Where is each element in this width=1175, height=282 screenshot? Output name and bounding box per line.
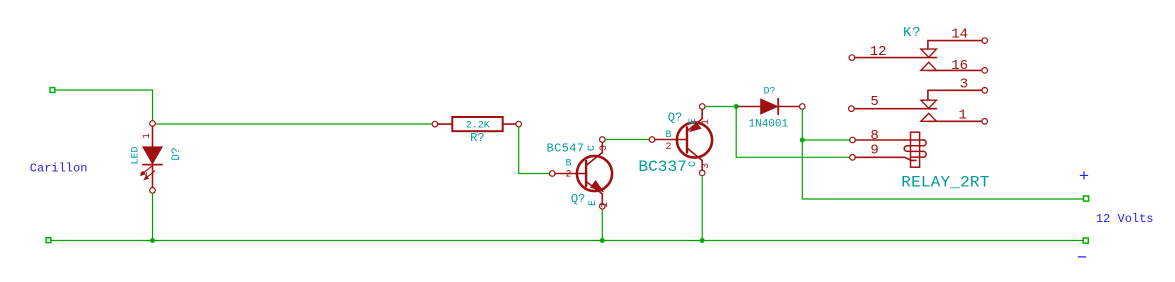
wire LED bottom to rail	[152, 193, 154, 240]
junction diode cathode / relay pin8	[800, 138, 805, 143]
wire diode cathode down and to +12V terminal	[802, 109, 1083, 199]
contact 2 moving triangle down	[921, 100, 937, 108]
wire resistor to BC547 base	[519, 127, 550, 174]
svg-text:2: 2	[140, 171, 151, 177]
svg-text:12 Volts: 12 Volts	[1096, 212, 1154, 226]
bottom rail wire	[51, 240, 1083, 242]
unconnected square end bottom-left	[46, 238, 51, 243]
svg-text:Q?: Q?	[668, 111, 682, 125]
svg-text:BC337: BC337	[638, 158, 687, 176]
contact 2 : pin 1	[928, 120, 982, 122]
wire BC337 emitter to diode node	[705, 106, 736, 108]
diode D? 1N4001	[739, 99, 805, 115]
svg-text:3: 3	[599, 145, 610, 151]
relay K? RELAY_2RT	[849, 38, 988, 167]
resistor R? 2.2K	[432, 117, 521, 131]
svg-text:K?: K?	[903, 25, 922, 41]
junction LED/rail	[150, 238, 155, 243]
svg-text:1N4001: 1N4001	[749, 118, 789, 130]
wire top-left stub	[55, 90, 153, 121]
LED emission arrows	[141, 166, 155, 179]
coil pin 9	[850, 155, 856, 161]
svg-text:14: 14	[951, 26, 968, 42]
junction BC337 collector/rail	[700, 238, 705, 243]
svg-text:2.2K: 2.2K	[466, 121, 490, 132]
svg-text:5: 5	[870, 94, 878, 110]
svg-text:C: C	[688, 161, 699, 167]
wire node down to relay pin9	[736, 107, 850, 158]
svg-text:16: 16	[951, 58, 968, 74]
wire to relay pin8	[802, 139, 849, 141]
svg-text:−: −	[1077, 250, 1087, 269]
svg-text:D?: D?	[764, 87, 776, 98]
LED D?	[141, 121, 162, 193]
svg-text:9: 9	[870, 143, 878, 159]
svg-text:Q?: Q?	[571, 192, 585, 206]
svg-text:2: 2	[565, 170, 571, 181]
junction BC547 emitter/rail	[600, 238, 605, 243]
svg-text:BC547: BC547	[547, 142, 585, 156]
svg-text:Carillon: Carillon	[30, 162, 88, 176]
svg-text:R?: R?	[470, 131, 484, 145]
contact 1 : pin 16	[928, 69, 982, 71]
transistor Q? BC337	[649, 104, 712, 176]
svg-text:D?: D?	[171, 147, 183, 160]
svg-text:8: 8	[870, 128, 878, 144]
svg-text:C: C	[587, 145, 598, 151]
svg-text:B: B	[665, 130, 671, 141]
wire LED top to resistor	[155, 123, 433, 125]
svg-text:1: 1	[701, 119, 712, 125]
svg-text:RELAY_2RT: RELAY_2RT	[901, 174, 989, 192]
transistor Q? BC547	[550, 137, 613, 209]
svg-text:LED: LED	[131, 146, 142, 164]
contact 2 : pin 3	[982, 88, 988, 94]
contact 1 moving triangle down	[921, 49, 937, 57]
wire BC337 collector to rail	[701, 176, 703, 241]
contact 1 triangle up	[921, 62, 937, 70]
svg-text:3: 3	[701, 163, 712, 169]
coil pin 8	[850, 137, 856, 143]
contact 2 triangle up	[921, 113, 937, 121]
coil body	[911, 132, 920, 167]
contact 1 : pin 12 common	[849, 55, 855, 61]
junction diode anode node	[734, 104, 739, 109]
contact 1 : pin 14	[982, 38, 988, 44]
unconnected square end top-left	[50, 88, 55, 93]
svg-text:12: 12	[870, 44, 887, 60]
svg-text:2: 2	[665, 142, 671, 153]
svg-text:B: B	[565, 159, 571, 170]
svg-text:+: +	[1079, 168, 1089, 187]
svg-text:1: 1	[142, 133, 153, 139]
svg-text:E: E	[588, 200, 599, 206]
svg-text:1: 1	[959, 107, 967, 123]
wire BC547 emitter to rail	[601, 209, 603, 240]
svg-text:1: 1	[600, 202, 611, 208]
svg-text:E: E	[688, 118, 699, 124]
svg-text:3: 3	[960, 77, 968, 93]
contact 2 : pin 5 common	[849, 106, 855, 112]
+12V terminal squares	[1084, 196, 1089, 201]
wire BC547 collector to BC337 base	[605, 139, 649, 141]
